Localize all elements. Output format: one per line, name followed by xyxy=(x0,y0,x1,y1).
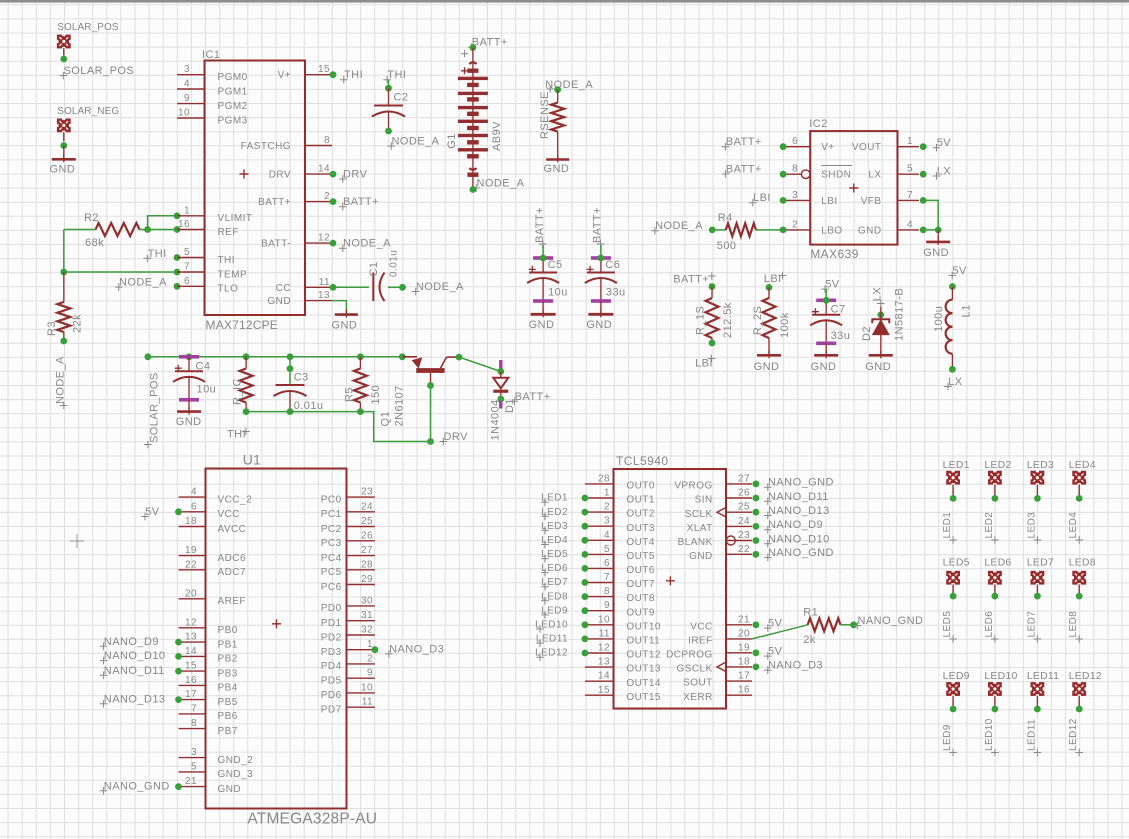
svg-text:4: 4 xyxy=(907,219,913,230)
svg-text:SOLAR_POS: SOLAR_POS xyxy=(149,372,161,443)
svg-text:0.01u: 0.01u xyxy=(389,250,400,277)
svg-text:PD6: PD6 xyxy=(321,690,342,701)
svg-text:4: 4 xyxy=(191,487,197,498)
svg-text:BATT+: BATT+ xyxy=(726,163,762,175)
svg-text:9: 9 xyxy=(604,600,610,611)
svg-text:6: 6 xyxy=(184,276,190,287)
svg-text:PB2: PB2 xyxy=(218,654,238,665)
svg-text:PB4: PB4 xyxy=(218,683,238,694)
svg-text:PGM0: PGM0 xyxy=(218,72,248,83)
svg-text:OUT6: OUT6 xyxy=(626,565,654,576)
svg-text:OUT14: OUT14 xyxy=(626,678,660,689)
svg-text:100u: 100u xyxy=(933,306,945,332)
svg-text:PB5: PB5 xyxy=(218,697,238,708)
svg-text:LED11: LED11 xyxy=(1027,670,1059,682)
svg-text:7: 7 xyxy=(604,572,610,583)
svg-text:C2: C2 xyxy=(394,92,409,104)
svg-text:SCLK: SCLK xyxy=(685,509,713,520)
svg-text:26: 26 xyxy=(361,530,373,541)
svg-text:LBI: LBI xyxy=(764,273,782,285)
svg-text:PD1: PD1 xyxy=(321,618,342,629)
svg-text:21: 21 xyxy=(738,614,750,625)
svg-text:AVCC: AVCC xyxy=(218,524,247,535)
svg-text:LED5: LED5 xyxy=(943,557,970,569)
svg-text:VCC: VCC xyxy=(218,509,240,520)
svg-text:19: 19 xyxy=(185,545,197,556)
svg-text:LED12: LED12 xyxy=(1069,670,1102,682)
svg-text:GND: GND xyxy=(586,319,612,331)
svg-text:TEMP: TEMP xyxy=(218,269,248,280)
svg-text:V+: V+ xyxy=(278,70,291,81)
svg-text:21: 21 xyxy=(185,776,197,787)
svg-text:LED11: LED11 xyxy=(1026,719,1037,751)
svg-text:6: 6 xyxy=(604,558,610,569)
svg-text:12: 12 xyxy=(185,617,197,628)
svg-text:U1: U1 xyxy=(243,452,261,468)
svg-text:PC1: PC1 xyxy=(321,509,342,520)
svg-text:IC2: IC2 xyxy=(809,118,827,130)
svg-text:C5: C5 xyxy=(548,259,563,271)
svg-text:33u: 33u xyxy=(606,287,626,299)
svg-text:VLIMIT: VLIMIT xyxy=(218,213,253,224)
svg-text:BATT+: BATT+ xyxy=(258,197,291,208)
svg-text:NODE_A: NODE_A xyxy=(392,136,440,148)
svg-text:3: 3 xyxy=(792,190,798,201)
svg-text:VFB: VFB xyxy=(861,196,882,207)
svg-text:10: 10 xyxy=(178,108,190,119)
svg-text:5: 5 xyxy=(191,761,197,772)
svg-text:12: 12 xyxy=(318,233,330,244)
svg-text:3: 3 xyxy=(604,516,610,527)
svg-text:10: 10 xyxy=(361,682,373,693)
svg-text:11: 11 xyxy=(362,697,373,708)
svg-text:GND: GND xyxy=(923,247,949,259)
svg-text:7: 7 xyxy=(184,262,190,273)
svg-text:0.01u: 0.01u xyxy=(294,400,324,412)
svg-text:NANO_D3: NANO_D3 xyxy=(389,643,444,655)
svg-text:BATT+: BATT+ xyxy=(673,273,709,285)
svg-text:V+: V+ xyxy=(821,142,834,153)
svg-text:IREF: IREF xyxy=(688,636,713,647)
svg-text:SHDN: SHDN xyxy=(821,170,851,181)
svg-text:7: 7 xyxy=(907,190,913,201)
svg-text:NANO_D9: NANO_D9 xyxy=(104,636,159,648)
svg-text:PB6: PB6 xyxy=(218,711,238,722)
svg-text:PGM3: PGM3 xyxy=(218,115,248,126)
svg-text:17: 17 xyxy=(185,689,197,700)
svg-text:11: 11 xyxy=(319,277,330,288)
svg-text:20: 20 xyxy=(185,588,197,599)
svg-text:LED3: LED3 xyxy=(1026,512,1037,539)
svg-text:6: 6 xyxy=(191,501,197,512)
svg-text:PC5: PC5 xyxy=(321,567,342,578)
svg-text:18: 18 xyxy=(185,516,197,527)
svg-text:D1: D1 xyxy=(504,398,516,413)
svg-text:27: 27 xyxy=(361,545,373,556)
svg-text:8: 8 xyxy=(604,586,610,597)
svg-text:OUT1: OUT1 xyxy=(626,495,654,506)
svg-text:GND_2: GND_2 xyxy=(218,755,254,766)
svg-text:13: 13 xyxy=(185,632,197,643)
svg-text:GND_3: GND_3 xyxy=(218,769,254,780)
svg-text:10: 10 xyxy=(598,614,610,625)
svg-text:LBI: LBI xyxy=(821,196,837,207)
svg-text:28: 28 xyxy=(361,559,373,570)
svg-text:OUT15: OUT15 xyxy=(626,692,660,703)
svg-text:PC4: PC4 xyxy=(321,553,342,564)
svg-text:C7: C7 xyxy=(831,304,846,316)
svg-text:AREF: AREF xyxy=(218,596,246,607)
svg-text:15: 15 xyxy=(318,64,330,75)
svg-text:R_1S: R_1S xyxy=(695,306,707,335)
svg-text:R2: R2 xyxy=(84,212,99,224)
svg-text:150: 150 xyxy=(370,385,382,405)
svg-text:ATMEGA328P-AU: ATMEGA328P-AU xyxy=(247,811,377,828)
svg-text:LBI: LBI xyxy=(695,358,713,370)
svg-text:NANO_D13: NANO_D13 xyxy=(104,693,166,705)
svg-text:LED6: LED6 xyxy=(984,557,1011,569)
svg-text:LED12: LED12 xyxy=(1068,718,1079,751)
svg-text:NANO_D10: NANO_D10 xyxy=(768,533,830,545)
svg-text:RSENSE: RSENSE xyxy=(539,91,551,139)
svg-text:XLAT: XLAT xyxy=(687,523,713,534)
svg-text:14: 14 xyxy=(598,671,610,682)
svg-text:BATT+: BATT+ xyxy=(343,196,379,208)
svg-text:R5: R5 xyxy=(344,387,356,402)
svg-text:R1: R1 xyxy=(803,607,818,619)
svg-text:13: 13 xyxy=(598,657,610,668)
svg-text:8: 8 xyxy=(191,718,197,729)
svg-text:PD2: PD2 xyxy=(321,632,342,643)
svg-text:TCL5940: TCL5940 xyxy=(616,454,669,468)
svg-text:16: 16 xyxy=(738,685,750,696)
svg-text:11: 11 xyxy=(599,628,610,639)
svg-text:2: 2 xyxy=(792,219,798,230)
svg-text:OUT5: OUT5 xyxy=(626,551,654,562)
svg-text:4: 4 xyxy=(604,530,610,541)
svg-text:PD3: PD3 xyxy=(321,647,342,658)
svg-text:PC6: PC6 xyxy=(321,582,342,593)
svg-text:9: 9 xyxy=(184,93,190,104)
svg-text:2: 2 xyxy=(367,653,373,664)
svg-text:LED4: LED4 xyxy=(1069,459,1096,471)
svg-text:OUT12: OUT12 xyxy=(626,650,660,661)
svg-text:NODE_A: NODE_A xyxy=(416,281,464,293)
svg-text:4: 4 xyxy=(184,79,190,90)
svg-text:PC3: PC3 xyxy=(321,538,342,549)
svg-text:1N5817-B: 1N5817-B xyxy=(894,288,906,341)
svg-text:DRV: DRV xyxy=(269,170,291,181)
svg-text:GND: GND xyxy=(689,551,713,562)
svg-text:OUT9: OUT9 xyxy=(626,607,654,618)
svg-text:25: 25 xyxy=(738,502,750,513)
svg-text:19: 19 xyxy=(738,642,750,653)
svg-text:PD5: PD5 xyxy=(321,676,342,687)
svg-text:LED10: LED10 xyxy=(984,670,1017,682)
svg-text:22k: 22k xyxy=(72,314,84,333)
svg-text:ADC7: ADC7 xyxy=(218,567,246,578)
svg-text:GND: GND xyxy=(218,784,242,795)
svg-text:7: 7 xyxy=(191,703,197,714)
svg-text:31: 31 xyxy=(361,610,373,621)
svg-text:OUT4: OUT4 xyxy=(626,537,654,548)
svg-text:GND: GND xyxy=(754,361,780,373)
svg-text:TLO: TLO xyxy=(218,284,239,295)
svg-text:GND: GND xyxy=(865,361,891,373)
svg-text:1: 1 xyxy=(184,205,190,216)
svg-text:NANO_D13: NANO_D13 xyxy=(768,505,830,517)
svg-text:SOLAR_POS: SOLAR_POS xyxy=(64,65,135,77)
svg-text:PGM1: PGM1 xyxy=(218,86,248,97)
svg-text:LED1: LED1 xyxy=(942,512,953,539)
svg-text:NODE_A: NODE_A xyxy=(343,238,391,250)
svg-text:GND: GND xyxy=(332,320,358,332)
svg-text:29: 29 xyxy=(361,574,373,585)
svg-text:68k: 68k xyxy=(85,237,104,249)
svg-text:16: 16 xyxy=(178,219,190,230)
svg-text:BATT+: BATT+ xyxy=(726,136,762,148)
svg-text:NANO_GND: NANO_GND xyxy=(104,780,170,792)
svg-text:REF: REF xyxy=(218,227,239,238)
svg-text:VPROG: VPROG xyxy=(674,481,712,492)
svg-text:BLANK: BLANK xyxy=(678,537,713,548)
svg-text:LX: LX xyxy=(872,287,884,302)
svg-text:C6: C6 xyxy=(605,259,620,271)
svg-text:G1: G1 xyxy=(446,133,458,149)
svg-text:C4: C4 xyxy=(196,361,211,373)
svg-text:PC2: PC2 xyxy=(321,524,342,535)
svg-text:LBO: LBO xyxy=(821,225,842,236)
svg-text:DRV: DRV xyxy=(444,431,469,443)
svg-text:GND: GND xyxy=(176,416,202,428)
svg-text:30: 30 xyxy=(361,595,373,606)
svg-text:PB0: PB0 xyxy=(218,625,238,636)
svg-text:NANO_D11: NANO_D11 xyxy=(104,665,165,677)
svg-text:17: 17 xyxy=(738,671,750,682)
svg-text:BATT-: BATT- xyxy=(261,239,291,250)
svg-text:3: 3 xyxy=(184,64,190,75)
svg-text:ADC6: ADC6 xyxy=(218,553,246,564)
svg-text:6: 6 xyxy=(792,136,798,147)
svg-text:18: 18 xyxy=(738,656,750,667)
svg-text:PB7: PB7 xyxy=(218,726,238,737)
svg-text:23: 23 xyxy=(361,487,373,498)
svg-text:GSCLK: GSCLK xyxy=(677,664,713,675)
svg-text:OUT8: OUT8 xyxy=(626,593,654,604)
svg-text:DRV: DRV xyxy=(343,169,368,181)
svg-text:GND: GND xyxy=(811,361,837,373)
svg-text:24: 24 xyxy=(361,501,373,512)
svg-text:LED9: LED9 xyxy=(943,670,970,682)
svg-text:5: 5 xyxy=(907,164,913,175)
svg-text:1: 1 xyxy=(907,136,913,147)
svg-text:R_2S: R_2S xyxy=(752,306,764,335)
svg-text:GND: GND xyxy=(529,319,555,331)
svg-text:PD4: PD4 xyxy=(321,661,342,672)
svg-text:26: 26 xyxy=(738,488,750,499)
svg-text:NANO_D10: NANO_D10 xyxy=(104,650,166,662)
svg-text:R4: R4 xyxy=(718,212,733,224)
svg-text:OUT2: OUT2 xyxy=(626,509,654,520)
svg-text:PGM2: PGM2 xyxy=(218,101,248,112)
svg-text:THI: THI xyxy=(218,255,235,266)
svg-text:27: 27 xyxy=(738,473,750,484)
svg-text:THI: THI xyxy=(227,429,246,441)
svg-text:22: 22 xyxy=(185,559,197,570)
svg-text:LED9: LED9 xyxy=(942,724,953,751)
svg-text:XERR: XERR xyxy=(683,692,713,703)
svg-text:BATT+: BATT+ xyxy=(592,207,604,243)
svg-text:GND: GND xyxy=(267,296,291,307)
svg-text:OUT11: OUT11 xyxy=(626,636,660,647)
svg-text:22: 22 xyxy=(738,544,750,555)
svg-text:LED10: LED10 xyxy=(984,718,995,751)
svg-text:OUT0: OUT0 xyxy=(626,481,654,492)
svg-text:LED6: LED6 xyxy=(984,611,995,638)
svg-text:8: 8 xyxy=(792,164,798,175)
svg-text:PB1: PB1 xyxy=(218,639,238,650)
svg-text:15: 15 xyxy=(185,661,197,672)
svg-text:SIN: SIN xyxy=(695,495,713,506)
svg-text:NODE_A: NODE_A xyxy=(55,356,67,404)
svg-text:DCPROG: DCPROG xyxy=(666,649,713,660)
svg-text:OUT10: OUT10 xyxy=(626,621,660,632)
svg-text:5: 5 xyxy=(184,247,190,258)
svg-text:5: 5 xyxy=(604,544,610,555)
svg-text:BATT+: BATT+ xyxy=(472,37,508,49)
svg-text:32: 32 xyxy=(361,625,373,636)
svg-text:SOUT: SOUT xyxy=(683,678,713,689)
svg-text:2: 2 xyxy=(604,502,610,513)
svg-text:100k: 100k xyxy=(779,312,791,338)
svg-text:25: 25 xyxy=(361,516,373,527)
svg-text:MAX639: MAX639 xyxy=(810,247,859,261)
svg-text:L1: L1 xyxy=(961,304,973,317)
svg-text:PD7: PD7 xyxy=(321,705,342,716)
svg-text:3: 3 xyxy=(191,747,197,758)
svg-text:LED2: LED2 xyxy=(984,512,995,539)
svg-text:OUT7: OUT7 xyxy=(626,579,654,590)
svg-text:LX: LX xyxy=(868,170,881,181)
svg-text:10u: 10u xyxy=(548,287,568,299)
svg-text:14: 14 xyxy=(185,646,197,657)
svg-text:SOLAR_POS: SOLAR_POS xyxy=(57,22,119,33)
svg-text:OUT3: OUT3 xyxy=(626,523,654,534)
svg-text:500: 500 xyxy=(717,240,737,252)
svg-text:SOLAR_NEG: SOLAR_NEG xyxy=(57,106,119,117)
svg-text:FASTCHG: FASTCHG xyxy=(241,141,291,152)
svg-text:12: 12 xyxy=(598,643,610,654)
svg-text:NODE_A: NODE_A xyxy=(655,220,703,232)
svg-text:PC0: PC0 xyxy=(321,494,342,505)
svg-text:NANO_GND: NANO_GND xyxy=(768,547,834,559)
svg-text:1: 1 xyxy=(604,488,610,499)
svg-text:212.5k: 212.5k xyxy=(722,302,734,338)
svg-text:LED4: LED4 xyxy=(1068,512,1079,539)
svg-text:MAX712CPE: MAX712CPE xyxy=(206,318,279,332)
svg-text:33u: 33u xyxy=(831,330,851,342)
svg-text:AB9V: AB9V xyxy=(491,121,503,151)
svg-text:9: 9 xyxy=(367,668,373,679)
svg-text:LED8: LED8 xyxy=(1069,557,1096,569)
svg-text:8: 8 xyxy=(324,135,330,146)
svg-text:OUT13: OUT13 xyxy=(626,664,660,675)
svg-text:28: 28 xyxy=(598,473,610,484)
svg-text:NANO_D9: NANO_D9 xyxy=(768,519,823,531)
svg-text:LED2: LED2 xyxy=(984,459,1011,471)
svg-text:13: 13 xyxy=(318,290,330,301)
svg-text:GND: GND xyxy=(858,225,882,236)
svg-text:24: 24 xyxy=(738,516,750,527)
svg-text:GND: GND xyxy=(50,164,76,176)
svg-text:R3: R3 xyxy=(46,321,58,336)
svg-text:GND: GND xyxy=(544,163,570,175)
svg-text:C1: C1 xyxy=(368,262,380,277)
svg-text:PD0: PD0 xyxy=(321,603,342,614)
svg-text:15: 15 xyxy=(598,685,610,696)
svg-text:NANO_GND: NANO_GND xyxy=(768,477,834,489)
svg-text:2: 2 xyxy=(324,191,330,202)
svg-text:R_IC: R_IC xyxy=(232,378,244,405)
svg-text:LED7: LED7 xyxy=(1027,557,1054,569)
svg-text:NODE_A: NODE_A xyxy=(477,178,525,190)
svg-text:Q1: Q1 xyxy=(380,411,392,427)
svg-text:2N6107: 2N6107 xyxy=(394,385,406,426)
svg-text:NODE_A: NODE_A xyxy=(119,277,167,289)
svg-text:PB3: PB3 xyxy=(218,668,238,679)
svg-text:20: 20 xyxy=(738,628,750,639)
svg-text:23: 23 xyxy=(738,530,750,541)
svg-text:D2: D2 xyxy=(861,326,873,341)
svg-text:10u: 10u xyxy=(197,384,217,396)
svg-text:CC: CC xyxy=(276,283,291,294)
svg-text:BATT+: BATT+ xyxy=(534,207,546,243)
svg-text:VCC: VCC xyxy=(690,621,712,632)
svg-text:1N4004: 1N4004 xyxy=(490,399,502,440)
svg-text:LED1: LED1 xyxy=(943,459,970,471)
svg-text:VCC_2: VCC_2 xyxy=(218,494,253,505)
svg-text:NANO_GND: NANO_GND xyxy=(858,615,924,627)
svg-text:14: 14 xyxy=(318,164,330,175)
svg-text:2k: 2k xyxy=(803,634,816,646)
svg-text:NANO_D3: NANO_D3 xyxy=(768,660,823,672)
svg-text:LED5: LED5 xyxy=(942,611,953,638)
svg-text:BATT+: BATT+ xyxy=(515,391,551,403)
svg-text:LED3: LED3 xyxy=(1027,459,1054,471)
svg-text:VOUT: VOUT xyxy=(852,142,882,153)
svg-text:NANO_D11: NANO_D11 xyxy=(768,491,829,503)
svg-text:IC1: IC1 xyxy=(202,49,220,61)
svg-text:C3: C3 xyxy=(294,371,309,383)
svg-text:LED8: LED8 xyxy=(1068,611,1079,638)
svg-text:LED7: LED7 xyxy=(1026,611,1037,638)
svg-text:16: 16 xyxy=(185,675,197,686)
